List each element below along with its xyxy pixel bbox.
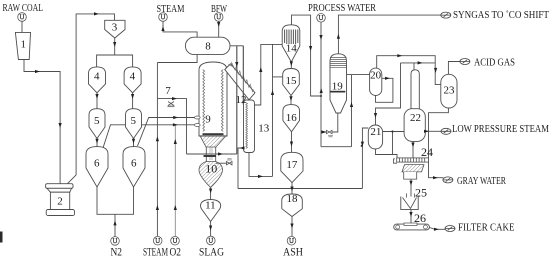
svg-text:21: 21 [370, 126, 381, 138]
scrubber 19 trays [330, 58, 347, 68]
quench level bar [204, 155, 217, 157]
wire 10 to 11 [210, 188, 212, 200]
gasifier 9 refractory zigzag right [221, 70, 223, 132]
svg-text:19: 19 [332, 81, 344, 93]
port steam product [159, 13, 168, 22]
svg-text:12: 12 [236, 94, 247, 106]
wire 19 right offtake to 20 [347, 74, 370, 76]
svg-text:FILTER CAKE: FILTER CAKE [458, 223, 515, 234]
port BFW [214, 13, 223, 22]
svg-text:23: 23 [444, 85, 456, 97]
wire 19 syngas offtake [338, 15, 440, 54]
svg-text:4: 4 [94, 71, 100, 83]
wire steam riser [156, 63, 158, 237]
valve at 10 blowdown [227, 159, 233, 165]
valve at 19 bottom [327, 130, 334, 137]
cyclone 13 zigzag lining [246, 103, 248, 149]
wire quench water run [187, 153, 237, 155]
port gray water out [443, 177, 453, 183]
wire 3 to split header [114, 38, 116, 55]
wire 19 bottom valve line [321, 113, 338, 132]
hopper 17 [281, 152, 303, 182]
wire water line into 13 top [242, 46, 244, 105]
svg-text:LOW PRESSURE STEAM: LOW PRESSURE STEAM [452, 124, 550, 135]
port LP steam out [441, 128, 451, 134]
svg-text:14: 14 [286, 43, 298, 55]
vacuum filter 24 [394, 158, 429, 179]
wire 22 LP steam line [425, 130, 441, 132]
svg-text:18: 18 [287, 193, 299, 205]
hopper 4 right [124, 67, 141, 93]
svg-text:STEAM: STEAM [143, 245, 168, 259]
wire long black-water run [238, 188, 362, 190]
wire 21 to 22 cross line [383, 131, 405, 133]
wire header drop to 21 [376, 63, 401, 125]
svg-text:10: 10 [205, 162, 217, 176]
quench cone of 9 [200, 136, 226, 147]
wire 21 feed line [362, 128, 368, 189]
wire gray water loop right riser [351, 75, 353, 147]
wire 22 top riser [413, 63, 415, 70]
svg-text:16: 16 [286, 112, 298, 124]
wire drum downcomer to quench line [236, 46, 238, 154]
wire steam drum 8 left leg [157, 55, 197, 63]
wire raw coal circle to 1 [21, 22, 23, 33]
wire blowdown from 10 [216, 162, 227, 164]
svg-text:STEAM: STEAM [157, 4, 186, 15]
svg-text:ASH: ASH [283, 245, 303, 259]
port filter cake out [445, 226, 455, 232]
washer 14 shell [282, 25, 300, 62]
wire 13 bottom-left drain to long run [238, 148, 244, 189]
svg-text:3: 3 [112, 22, 118, 34]
wire steam top outlet [163, 22, 197, 38]
lock hopper 6 right [123, 147, 145, 187]
wire BFW inlet [218, 22, 220, 38]
gasifier burner nozzles [195, 116, 201, 127]
scan smudge [0, 232, 3, 243]
wire 23 acid gas outlet [448, 62, 460, 75]
wire 6 hoppers to N2 manifold [97, 187, 134, 214]
svg-text:6: 6 [131, 158, 137, 170]
wire 14 overhead U [292, 15, 322, 96]
wire oxygen riser [174, 125, 176, 237]
burner 7 symbol [168, 102, 175, 108]
svg-text:6: 6 [94, 158, 100, 170]
svg-text:7: 7 [165, 85, 171, 97]
hopper 18 [282, 194, 303, 217]
hopper 4 left [89, 67, 106, 93]
stripper 22 bottom drum [404, 109, 425, 142]
svg-text:22: 22 [410, 112, 421, 124]
feeder 1 [15, 32, 30, 59]
svg-text:25: 25 [415, 186, 427, 200]
belt filter 26 [394, 223, 430, 230]
lockhopper 10 teardrop [199, 162, 223, 188]
wire 26 to filter cake port [429, 228, 445, 230]
wire 15 to 16 [290, 96, 292, 105]
wire 24 to 25 [410, 179, 412, 196]
port ash [287, 236, 296, 245]
svg-text:RAW COAL: RAW COAL [3, 3, 44, 14]
svg-text:9: 9 [205, 114, 211, 126]
wire 20 overhead [377, 56, 441, 85]
svg-text:26: 26 [414, 211, 426, 225]
svg-text:SYNGAS TO ˚CO SHIFT: SYNGAS TO ˚CO SHIFT [453, 10, 550, 21]
port process water [317, 13, 326, 22]
settler 25 [401, 194, 418, 210]
svg-text:N2: N2 [111, 245, 123, 259]
wire N2 riser [114, 214, 116, 236]
wire coal feed line upper into gasifier [138, 118, 198, 147]
hopper 5 left [89, 109, 105, 139]
wire 14 to 15 [290, 62, 292, 69]
cyclone 13 [244, 100, 255, 153]
wire 2 up to 3 [67, 14, 114, 184]
svg-text:2: 2 [57, 196, 63, 208]
wire 23 bottom drain [429, 108, 449, 178]
wire 21 drop to pump run [376, 132, 393, 155]
absorber 23 [441, 74, 457, 108]
wire 25 to 26 [410, 210, 412, 225]
svg-text:15: 15 [286, 75, 298, 87]
hopper 5 right [126, 109, 142, 139]
wire 13 centre drain [249, 153, 273, 177]
wire split header to hoppers 4 [97, 55, 133, 67]
scrubber 19 level bar [330, 91, 346, 93]
wire drum 8 right header [230, 45, 243, 47]
svg-text:20: 20 [370, 70, 382, 82]
svg-text:8: 8 [205, 41, 211, 53]
gasifier 9 refractory zigzag left [203, 70, 205, 132]
svg-text:5: 5 [131, 115, 137, 127]
port acid gas out [460, 59, 470, 65]
wire process water drop [320, 22, 322, 147]
wire 5R to 6R [133, 139, 135, 147]
duct 12 zigzag [228, 63, 253, 92]
gasifier 9 shell [199, 62, 227, 136]
wire 16 to 17 [291, 132, 293, 153]
wire line through burner 7 [157, 99, 186, 154]
svg-text:BFW: BFW [211, 4, 227, 15]
wire 22 overhead header [401, 62, 436, 64]
wire redraw water line over duct [242, 46, 244, 105]
mill 2 [46, 184, 75, 216]
hopper 16 [283, 105, 300, 132]
junction dots [320, 95, 394, 147]
svg-text:ACID GAS: ACID GAS [474, 57, 515, 68]
flash drum 21 [368, 125, 382, 149]
gasifier 9 bottom level bar [203, 133, 224, 135]
wire 18 to ash port [291, 217, 293, 237]
svg-text:GRAY WATER: GRAY WATER [457, 176, 506, 187]
svg-text:1: 1 [20, 39, 26, 51]
port N2 [111, 237, 120, 246]
KO drum 20 [370, 68, 382, 95]
wire redraw downcomer over duct [236, 46, 238, 154]
wire 13 gas outlet riser to 14 [255, 44, 283, 105]
hopper 15 [283, 69, 300, 96]
wire 4R to 5R [132, 93, 134, 109]
port syngas out [441, 12, 451, 18]
quench dip tubes [205, 147, 207, 162]
svg-text:O2: O2 [170, 245, 182, 259]
wire 20 right loop [376, 78, 393, 102]
wire 22 bottom to 24 [412, 141, 414, 158]
svg-text:17: 17 [286, 159, 298, 171]
duct 12 [225, 64, 255, 100]
port O2 [171, 236, 180, 245]
wire run into 24 [393, 155, 398, 158]
wire coal feed line lower into gasifier [102, 125, 197, 151]
svg-text:PROCESS WATER: PROCESS WATER [308, 3, 376, 14]
svg-text:13: 13 [258, 123, 270, 135]
svg-text:SLAG: SLAG [199, 245, 224, 259]
wire gray water loop bottom [321, 146, 352, 148]
svg-text:5: 5 [94, 115, 100, 127]
wire tee into 15 [273, 76, 283, 78]
wire 4L to 5L [96, 93, 98, 109]
silo 3 [105, 20, 125, 38]
wire 17 to 18 [291, 183, 293, 194]
wire riser x272.5 [272, 44, 274, 176]
steam drum 8 [185, 37, 230, 54]
wire 11 to slag port [210, 222, 212, 237]
wire 1 to 2 [24, 60, 60, 184]
port steam bottom [153, 236, 162, 245]
port raw coal [18, 13, 27, 22]
washer 14 tube bundle [285, 30, 298, 45]
port slag [207, 236, 216, 245]
slag collector 11 [201, 200, 221, 222]
wire 5L to 6L [96, 139, 98, 147]
lock hopper 6 left [86, 147, 108, 187]
scrubber 19 shell [330, 54, 347, 113]
arrows [35, 12, 439, 231]
svg-text:11: 11 [205, 200, 216, 212]
svg-text:24: 24 [421, 145, 433, 159]
svg-text:4: 4 [130, 71, 136, 83]
stripper 22 column neck [411, 70, 419, 112]
